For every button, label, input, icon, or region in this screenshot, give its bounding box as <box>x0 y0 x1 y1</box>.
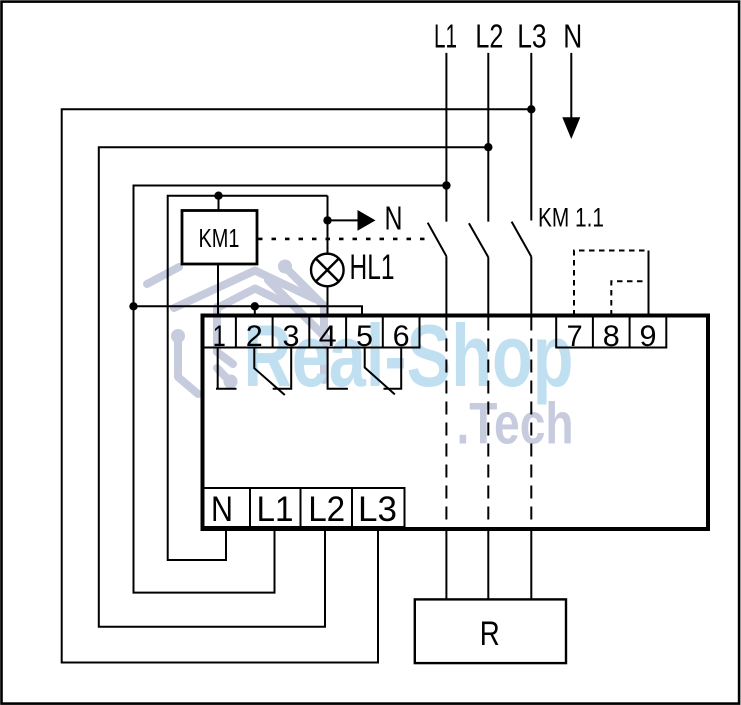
node KM1 top <box>214 192 222 200</box>
arrowhead to N (KM1 area) <box>358 210 376 231</box>
watermark logo hexagon <box>147 260 330 395</box>
wire lamp top <box>327 220 329 253</box>
N arrowhead (top) <box>562 117 580 139</box>
wire tap to terminal 2 <box>254 306 256 315</box>
wire N tap down to arrow node <box>327 196 329 221</box>
wire L2 to load R <box>487 531 489 599</box>
dashed link terminals 7-9 <box>574 251 649 318</box>
contact stub terminal 3 <box>273 348 292 389</box>
svg-text:8: 8 <box>603 320 620 353</box>
lamp HL1 <box>311 254 344 287</box>
contact stub terminal 4 <box>328 348 348 389</box>
load R <box>415 599 566 663</box>
contact stub terminal 6 <box>384 348 402 389</box>
svg-text:7: 7 <box>567 320 583 353</box>
terminal row 7-9 <box>556 316 666 348</box>
wire N arrow stem <box>570 53 572 121</box>
terminal row N L1 L2 L3 (bottom) <box>203 488 405 527</box>
wire arrow to N <box>328 219 359 221</box>
wire KM1 bottom to terminal 1 <box>217 264 219 315</box>
node arrow junction <box>323 216 331 224</box>
svg-text:L1: L1 <box>434 18 457 55</box>
contactor coil KM1 <box>182 211 257 265</box>
wire lamp bottom to terminal 4 <box>327 286 329 315</box>
svg-text:KM1: KM1 <box>199 223 240 253</box>
svg-text:N: N <box>211 490 233 529</box>
node L2 top bus <box>484 143 492 151</box>
wire L3 phase drop <box>530 53 532 221</box>
wire L1 to load R <box>445 531 447 599</box>
wire branch y=109 from L3 to left bus <box>62 109 532 662</box>
switch KM1.1 pole 1 <box>428 223 447 314</box>
switch KM1.1 pole 3 <box>512 222 532 314</box>
svg-text:L2: L2 <box>475 18 503 55</box>
wire KM1 top <box>218 196 220 211</box>
svg-text:1: 1 <box>213 320 226 353</box>
wire L2 phase drop <box>487 53 489 222</box>
contact blade terminal 5 <box>365 348 395 395</box>
svg-text:HL1: HL1 <box>350 248 395 287</box>
svg-text:9: 9 <box>640 320 657 353</box>
node L1 top bus <box>442 181 450 189</box>
switch KM1.1 pole 2 <box>469 223 488 313</box>
svg-text:L3: L3 <box>358 490 397 529</box>
dashed pass-through L2 <box>487 318 489 528</box>
svg-text:N: N <box>563 18 582 55</box>
wire L3 to load R <box>530 531 532 599</box>
svg-text:KM 1.1: KM 1.1 <box>538 202 604 232</box>
svg-text:L1: L1 <box>257 490 294 529</box>
dashed pass-through L1 <box>445 318 447 528</box>
svg-text:L3: L3 <box>517 18 547 55</box>
svg-text:.Tech: .Tech <box>457 392 574 457</box>
svg-text:L2: L2 <box>308 490 345 529</box>
node L3 top bus <box>527 105 535 113</box>
contact stub terminal 1 <box>216 348 237 389</box>
wire L1 phase drop <box>445 53 447 222</box>
wire N loop to terminal N <box>168 196 328 560</box>
contact blade terminal 2 <box>254 348 284 396</box>
wire branch y=147 from L2 to left bus <box>99 147 489 627</box>
wire branch y=185 from L1 to left bus <box>134 186 447 593</box>
device outline <box>203 316 709 530</box>
wire control bus y=306 to terminal 5 <box>134 306 363 315</box>
dashed mechanical link KM1 <box>258 238 430 241</box>
node terminal 2 tap <box>251 302 259 310</box>
svg-text:N: N <box>385 200 403 237</box>
terminal row 1-6 <box>203 316 420 348</box>
svg-text:R: R <box>480 615 500 653</box>
node left bus y=306 <box>129 302 137 310</box>
dashed pass-through L3 <box>530 318 532 528</box>
